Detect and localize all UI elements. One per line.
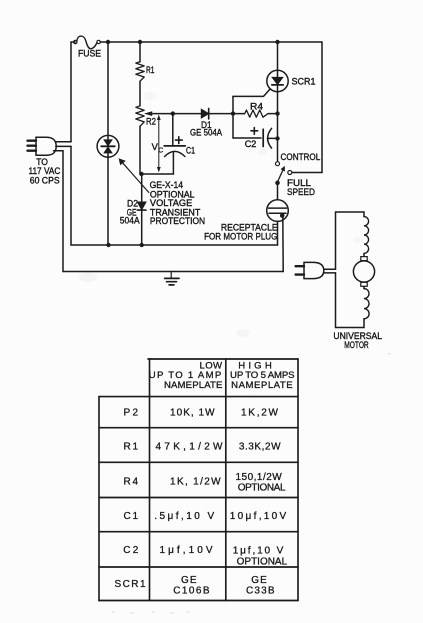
label FULL SPEED (287, 178, 315, 197)
svg-text:SCR1: SCR1 (292, 77, 316, 87)
svg-text:10K, 1W: 10K, 1W (170, 408, 215, 419)
node R2 leg / C1 bottom (139, 172, 143, 176)
wire C1 bottom to R2 leg (140, 173, 173, 175)
svg-text:CONTROL: CONTROL (281, 152, 321, 162)
label RECEPTACLE FOR MOTOR PLUG (204, 223, 278, 242)
svg-text:MOTOR: MOTOR (344, 340, 369, 350)
fuse F1 (74, 36, 101, 49)
table row P2 (124, 408, 279, 419)
diode D2 (137, 202, 146, 210)
potentiometer R2 (136, 106, 144, 174)
svg-text:PROTECTION: PROTECTION (150, 216, 205, 226)
wire receptacle shell to ground rail (282, 215, 284, 271)
svg-text:NAMEPLATE: NAMEPLATE (164, 380, 223, 391)
node C2 / SCR cathode line (275, 136, 279, 140)
svg-text:R4: R4 (250, 102, 263, 112)
plus sign C1 (176, 137, 183, 144)
wire suppressor top (107, 42, 109, 135)
label D2 GE 504A (120, 198, 141, 225)
svg-text:GE 504A: GE 504A (190, 127, 223, 137)
svg-text:OPTIONAL: OPTIONAL (237, 556, 288, 567)
label Vc (152, 142, 164, 154)
node D1 cathode / gate / R4 / C2 (231, 111, 235, 115)
SCR1 (267, 42, 288, 163)
gate wire to SCR1 (233, 89, 270, 97)
table row R1 (124, 441, 282, 452)
wire plug ground (54, 150, 64, 152)
svg-text:FUSE: FUSE (78, 49, 101, 59)
diode D1 (201, 108, 208, 119)
motor plug cord (324, 269, 336, 273)
label TO 117 VAC 60 CPS (29, 157, 61, 185)
svg-text:C1: C1 (186, 145, 195, 155)
arrow from GE-X-14 note to suppressor (119, 158, 149, 192)
table header text (149, 361, 295, 391)
svg-text:R2: R2 (146, 116, 156, 126)
wire top rail (100, 41, 322, 43)
label UNIVERSAL MOTOR (333, 331, 382, 350)
ground rail (63, 271, 283, 273)
capacitor C2 (233, 128, 278, 148)
svg-text:504A: 504A (120, 215, 141, 225)
plus sign C2 (251, 128, 258, 135)
wire suppressor bottom (107, 157, 109, 245)
wiper wire with arrow to D1 (144, 111, 233, 116)
paper smudges (79, 92, 363, 337)
AC plug P1 (28, 137, 57, 155)
table grid (99, 359, 298, 601)
label GE-X-14 OPTIONAL VOLTAGE TRANSIENT PROTECTION (150, 180, 205, 226)
wire plug neutral (56, 145, 71, 147)
wire hot riser x71 (70, 42, 72, 142)
node top rail / SCR1 anode (275, 40, 279, 44)
capacitor C1 (164, 114, 185, 174)
node R4 / SCR cathode line (275, 111, 279, 115)
svg-text:47K,1/2W: 47K,1/2W (156, 441, 224, 452)
table row C1 (124, 511, 287, 522)
wire receptacle to neutral rail (277, 221, 279, 245)
svg-text:NAMEPLATE: NAMEPLATE (231, 380, 293, 391)
svg-text:C33B: C33B (246, 586, 275, 597)
node top rail / transient suppressor (106, 40, 110, 44)
svg-text:C: C (158, 147, 163, 154)
wire full-speed branch (292, 42, 322, 173)
wire switch to receptacle (277, 184, 279, 200)
node D2 / neutral rail (140, 243, 144, 247)
node wiper / C1 (171, 111, 175, 115)
svg-text:R1: R1 (146, 65, 154, 75)
svg-text:C2: C2 (245, 139, 257, 149)
label D1 GE 504A (190, 120, 223, 138)
motor loop wires (336, 212, 365, 328)
wire top rail left stub (71, 41, 75, 43)
field coil bottom (364, 289, 369, 319)
receptacle J1 (267, 200, 289, 222)
resistor R4 (233, 110, 278, 117)
wire plug hot to fuse riser (56, 141, 72, 143)
svg-text:150,1/2W: 150,1/2W (235, 472, 282, 483)
svg-text:FOR MOTOR PLUG: FOR MOTOR PLUG (204, 231, 277, 241)
wire ground drop x63 (62, 151, 64, 272)
motor plug (296, 262, 324, 278)
svg-text:GE: GE (181, 575, 197, 586)
svg-text:C106B: C106B (173, 586, 210, 597)
table row SCR1 (115, 575, 275, 597)
node suppressor / neutral rail (106, 243, 110, 247)
svg-text:3.3K,2W: 3.3K,2W (239, 441, 281, 452)
field coil top (364, 217, 369, 254)
wire node column x233 (232, 96, 234, 138)
table row R4 (124, 472, 286, 493)
resistor R1 (136, 42, 144, 106)
ground symbol (165, 272, 179, 285)
transient suppressor GE-X-14 (97, 135, 119, 157)
armature with brushes (353, 253, 374, 288)
node top rail / R1 (138, 40, 142, 44)
table row C2 (123, 545, 287, 568)
svg-text:GE: GE (251, 575, 267, 586)
Vc measurement arrow (157, 115, 161, 173)
svg-text:60 CPS: 60 CPS (30, 175, 60, 185)
svg-text:OPTIONAL: OPTIONAL (238, 482, 286, 493)
wire D2 leg (141, 174, 143, 245)
neutral rail (71, 244, 278, 246)
svg-text:1μf,10 V: 1μf,10 V (233, 546, 284, 557)
svg-text:SPEED: SPEED (287, 187, 315, 197)
switch S1 control (275, 162, 292, 186)
wire neutral drop x71 (70, 146, 72, 245)
svg-text:1K, 1/2W: 1K, 1/2W (170, 476, 221, 487)
